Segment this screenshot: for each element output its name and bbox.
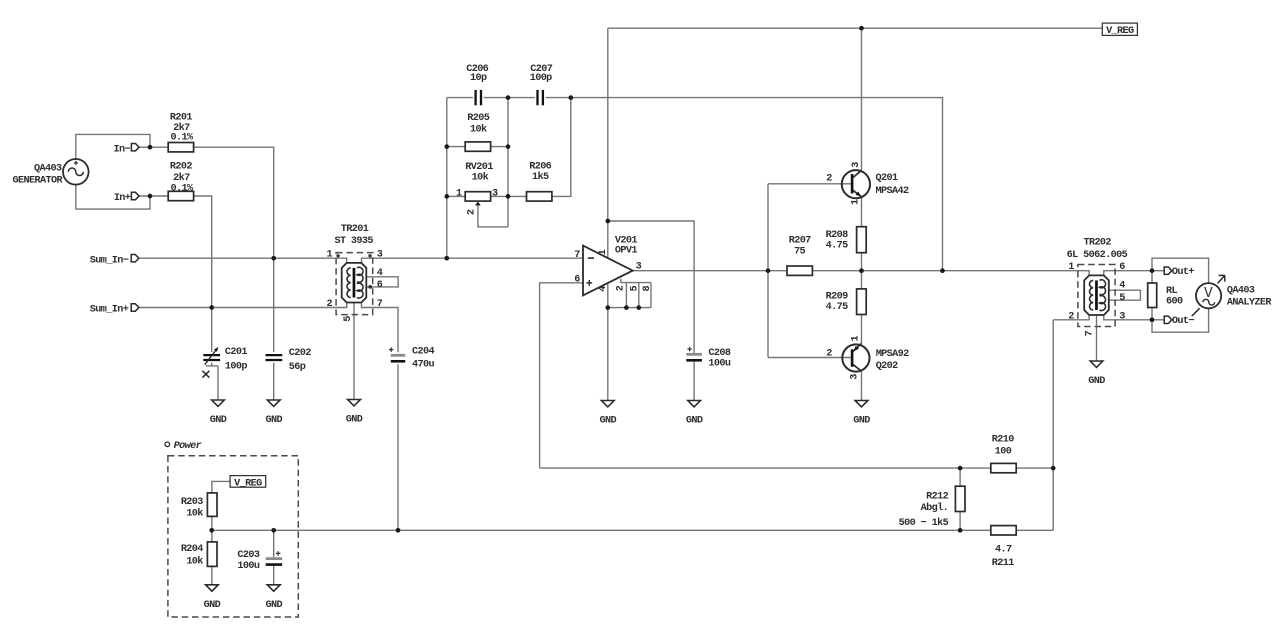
svg-text:3: 3 [377, 250, 383, 261]
svg-text:R207: R207 [789, 235, 811, 246]
svg-text:Abgl.: Abgl. [921, 502, 948, 514]
svg-text:GND: GND [265, 600, 282, 611]
svg-text:1k5: 1k5 [532, 171, 549, 183]
svg-text:Out+: Out+ [1172, 267, 1194, 278]
svg-text:2k7: 2k7 [173, 172, 190, 184]
svg-text:C203: C203 [237, 550, 259, 561]
svg-text:1: 1 [327, 250, 333, 261]
svg-text:0.1%: 0.1% [171, 184, 194, 195]
svg-text:MPSA42: MPSA42 [876, 186, 909, 197]
svg-text:TR201: TR201 [341, 224, 369, 235]
svg-text:QA403: QA403 [1227, 286, 1255, 297]
svg-text:GND: GND [1088, 376, 1105, 387]
svg-text:10p: 10p [470, 73, 487, 84]
svg-text:4: 4 [1119, 281, 1125, 292]
svg-text:MPSA92: MPSA92 [876, 349, 909, 360]
svg-text:7: 7 [1084, 330, 1095, 336]
svg-text:ANALYZER: ANALYZER [1227, 297, 1272, 308]
svg-text:6: 6 [377, 280, 383, 291]
svg-text:Q201: Q201 [876, 173, 898, 184]
svg-text:7: 7 [377, 299, 383, 310]
svg-text:3: 3 [851, 162, 862, 168]
svg-text:1: 1 [456, 188, 462, 199]
svg-text:10k: 10k [472, 171, 489, 183]
svg-text:ST 3935: ST 3935 [334, 236, 373, 247]
svg-text:10k: 10k [186, 507, 203, 519]
svg-text:C208: C208 [708, 348, 730, 359]
svg-text:5: 5 [343, 316, 354, 322]
svg-text:2: 2 [466, 209, 477, 215]
svg-text:R208: R208 [826, 230, 848, 241]
svg-text:Out−: Out− [1172, 316, 1194, 327]
svg-text:C204: C204 [412, 346, 434, 357]
svg-text:Sum_In−: Sum_In− [90, 255, 129, 266]
svg-text:GND: GND [210, 415, 227, 426]
svg-text:56p: 56p [289, 362, 306, 373]
svg-text:8: 8 [642, 286, 653, 292]
svg-text:100: 100 [995, 447, 1012, 458]
svg-text:75: 75 [794, 246, 805, 257]
svg-text:10k: 10k [470, 124, 487, 136]
svg-text:GENERATOR: GENERATOR [13, 175, 64, 186]
svg-text:0.1%: 0.1% [171, 132, 194, 143]
svg-text:6L 5062.005: 6L 5062.005 [1067, 250, 1128, 261]
svg-text:Sum_In+: Sum_In+ [90, 305, 129, 316]
svg-text:1: 1 [850, 335, 861, 341]
svg-text:4.75: 4.75 [826, 302, 848, 313]
svg-text:470u: 470u [412, 359, 434, 370]
svg-text:4.75: 4.75 [826, 240, 848, 251]
svg-text:GND: GND [600, 416, 617, 427]
svg-text:GND: GND [346, 415, 363, 426]
svg-text:GND: GND [204, 600, 221, 611]
svg-text:6: 6 [1119, 262, 1125, 273]
svg-text:R205: R205 [467, 113, 489, 124]
svg-text:4: 4 [377, 268, 383, 279]
svg-text:C201: C201 [225, 347, 247, 358]
svg-text:2: 2 [826, 174, 832, 185]
svg-text:C202: C202 [289, 348, 311, 359]
svg-text:V_REG: V_REG [234, 479, 262, 490]
svg-text:R209: R209 [826, 292, 848, 303]
svg-text:2: 2 [327, 299, 333, 310]
svg-text:100p: 100p [225, 361, 247, 372]
svg-text:4: 4 [598, 286, 609, 292]
svg-text:R203: R203 [181, 497, 203, 508]
svg-text:3: 3 [850, 374, 861, 380]
svg-text:1: 1 [851, 199, 862, 205]
svg-text:2: 2 [826, 349, 832, 360]
svg-text:7: 7 [574, 250, 580, 261]
svg-text:100u: 100u [708, 359, 730, 370]
svg-text:RL: RL [1166, 286, 1177, 297]
svg-text:R211: R211 [992, 558, 1014, 569]
svg-text:R204: R204 [181, 544, 203, 555]
svg-text:QA403: QA403 [34, 164, 62, 175]
svg-text:GND: GND [853, 416, 870, 427]
svg-text:4.7: 4.7 [995, 545, 1012, 556]
svg-text:In+: In+ [114, 193, 131, 204]
svg-text:3: 3 [1119, 311, 1125, 322]
svg-text:3: 3 [492, 188, 498, 199]
svg-text:5: 5 [630, 286, 641, 292]
svg-text:600: 600 [1166, 297, 1183, 308]
svg-text:Power: Power [174, 441, 202, 452]
svg-text:2: 2 [616, 285, 627, 291]
svg-text:1: 1 [598, 249, 609, 255]
svg-text:3: 3 [636, 262, 642, 273]
svg-text:10k: 10k [186, 555, 203, 567]
svg-text:Q202: Q202 [876, 361, 898, 372]
svg-text:5: 5 [1119, 293, 1125, 304]
svg-text:In−: In− [114, 144, 131, 155]
svg-text:TR202: TR202 [1083, 237, 1111, 248]
svg-text:500 − 1k5: 500 − 1k5 [899, 517, 949, 529]
svg-text:R212: R212 [926, 491, 948, 502]
svg-text:R210: R210 [992, 434, 1014, 445]
svg-text:2: 2 [1068, 311, 1074, 322]
svg-text:GND: GND [265, 415, 282, 426]
svg-text:100u: 100u [237, 561, 259, 572]
svg-text:OPV1: OPV1 [615, 246, 637, 257]
svg-text:GND: GND [686, 416, 703, 427]
svg-text:100p: 100p [530, 73, 552, 84]
svg-text:V_REG: V_REG [1106, 26, 1134, 37]
svg-text:R202: R202 [170, 161, 192, 172]
svg-text:6: 6 [574, 274, 580, 285]
svg-text:1: 1 [1068, 262, 1074, 273]
